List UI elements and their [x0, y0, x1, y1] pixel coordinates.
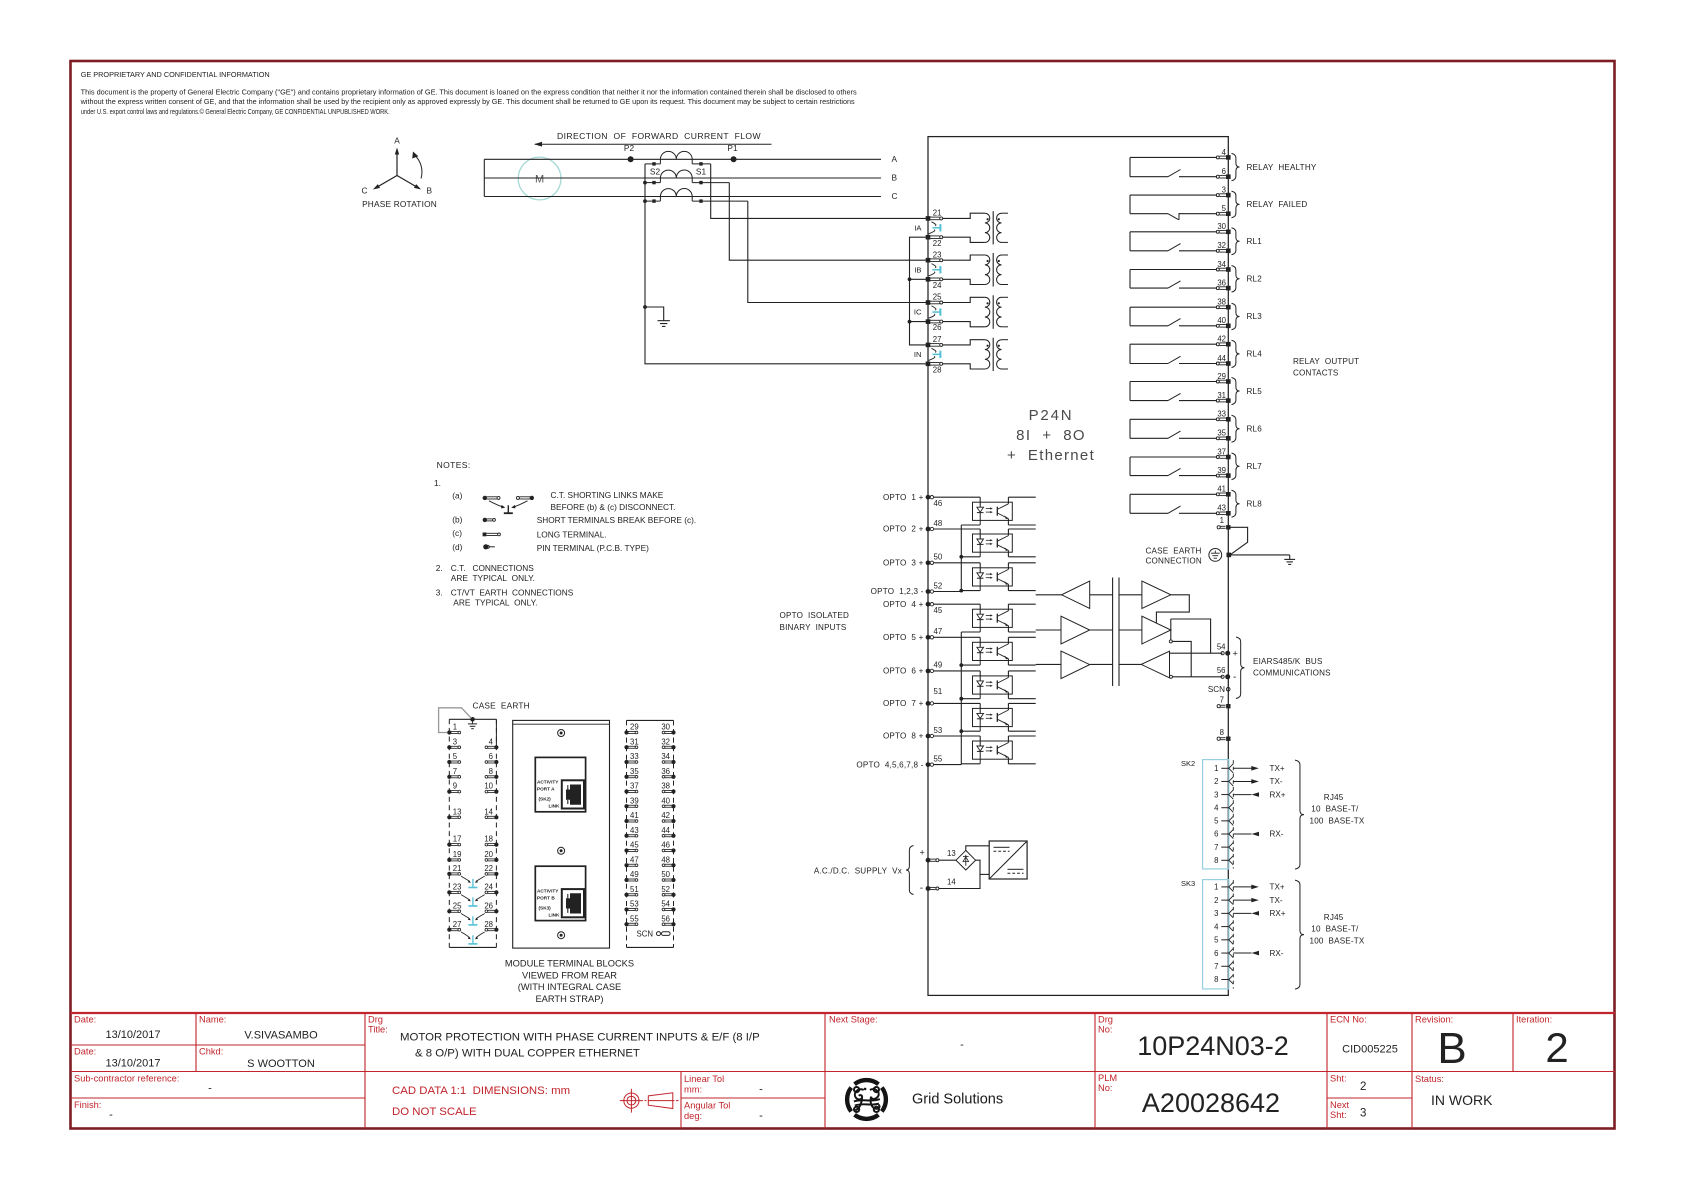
svg-text:(b): (b): [452, 515, 462, 525]
svg-text:-: -: [759, 1084, 763, 1096]
block terminal 44: [661, 826, 675, 838]
svg-text:8: 8: [489, 767, 493, 776]
svg-text:S WOOTTON: S WOOTTON: [247, 1058, 315, 1070]
rs485 driver buffer U2: [1061, 616, 1090, 644]
block terminal 30: [661, 723, 675, 735]
svg-text:5: 5: [1214, 936, 1219, 945]
svg-text:C.T. CONNECTIONS: C.T. CONNECTIONS: [451, 563, 534, 573]
svg-text:4: 4: [489, 737, 494, 746]
svg-text:20: 20: [484, 850, 493, 859]
svg-text:2: 2: [1360, 1081, 1366, 1093]
terminal SCN: [1208, 685, 1230, 694]
block terminal 47: [624, 855, 638, 867]
svg-text:LINK: LINK: [549, 912, 561, 917]
svg-text:29: 29: [1217, 372, 1226, 381]
svg-text:OPTO 2 +: OPTO 2 +: [883, 525, 924, 534]
block terminal 49: [624, 870, 638, 882]
svg-text:A: A: [892, 154, 898, 164]
svg-text:Drg: Drg: [1098, 1015, 1113, 1025]
svg-text:10: 10: [484, 782, 493, 791]
svg-text:13/10/2017: 13/10/2017: [105, 1029, 160, 1041]
optocoupler OPTO 8: [934, 736, 1036, 764]
svg-text:without the express written co: without the express written consent of G…: [80, 97, 855, 106]
opto terminal 47 (OPTO 5 +): [883, 627, 942, 642]
svg-text:RL8: RL8: [1247, 500, 1263, 509]
block terminal 55: [624, 914, 639, 926]
rs485 driver buffer U3: [1061, 651, 1090, 679]
svg-text:28: 28: [484, 920, 493, 929]
panel screw 1: [558, 730, 565, 737]
svg-text:-: -: [1233, 672, 1236, 683]
projection symbol: [620, 1089, 679, 1113]
svg-text:OPTO 7 +: OPTO 7 +: [883, 699, 924, 708]
svg-text:This document is the property: This document is the property of General…: [81, 88, 857, 97]
svg-text:OPTO 4 +: OPTO 4 +: [883, 600, 924, 609]
svg-text:(SK3): (SK3): [539, 905, 552, 910]
svg-text:40: 40: [661, 796, 670, 805]
svg-text:38: 38: [661, 782, 670, 791]
svg-text:30: 30: [1217, 222, 1226, 231]
title block values: [105, 1024, 1568, 1122]
svg-text:RJ45: RJ45: [1324, 793, 1344, 802]
svg-text:53: 53: [630, 900, 639, 909]
svg-text:PHASE ROTATION: PHASE ROTATION: [362, 199, 437, 209]
svg-text:GE PROPRIETARY AND CONFIDENTIA: GE PROPRIETARY AND CONFIDENTIAL INFORMAT…: [81, 70, 270, 79]
block terminal 4: [485, 737, 498, 749]
svg-text:8: 8: [1214, 856, 1218, 865]
svg-text:33: 33: [1217, 410, 1226, 419]
wire terminal 13 to bridge: [939, 859, 956, 861]
integral case earth strap: [439, 708, 472, 733]
svg-text:CT/VT EARTH CONNECTIONS: CT/VT EARTH CONNECTIONS: [451, 587, 574, 597]
svg-text:3: 3: [453, 737, 457, 746]
block terminal 45: [624, 841, 639, 853]
block terminal 40: [661, 796, 675, 808]
block terminal 18: [484, 835, 498, 847]
svg-text:Next: Next: [1330, 1100, 1350, 1110]
svg-text:CID005225: CID005225: [1342, 1044, 1398, 1056]
svg-text:Date:: Date:: [74, 1015, 96, 1025]
svg-text:RX+: RX+: [1270, 909, 1286, 918]
svg-text:A20028642: A20028642: [1142, 1088, 1280, 1118]
svg-text:40: 40: [1217, 316, 1226, 325]
node P2: [624, 143, 635, 162]
svg-text:OPTO 1 +: OPTO 1 +: [883, 493, 924, 502]
block terminal 28: [484, 920, 498, 932]
block terminal 54: [661, 900, 675, 912]
svg-text:No:: No:: [1098, 1025, 1112, 1035]
svg-text:TX+: TX+: [1270, 883, 1285, 892]
module face panel: [513, 720, 610, 948]
title block grid: [71, 1013, 1616, 1129]
block terminal 29: [624, 723, 638, 735]
svg-text:B: B: [427, 186, 433, 196]
relay contact RELAY FAILED terminals 3/5: [1130, 186, 1307, 220]
svg-text:ECN No:: ECN No:: [1330, 1015, 1367, 1025]
svg-text:+ Ethernet: + Ethernet: [1007, 447, 1095, 464]
svg-text:RL7: RL7: [1247, 462, 1263, 471]
svg-text:Sht:: Sht:: [1330, 1074, 1347, 1084]
system earth: [645, 307, 670, 326]
svg-text:deg:: deg:: [684, 1111, 702, 1121]
phase bus C: [484, 191, 897, 201]
svg-text:47: 47: [630, 855, 639, 864]
svg-text:38: 38: [1217, 298, 1226, 307]
svg-text:52: 52: [661, 885, 670, 894]
CT shorting link 1 in block: [461, 876, 485, 887]
wire CT C secondary to terminal 25: [748, 201, 928, 302]
svg-text:RL3: RL3: [1247, 312, 1263, 321]
svg-text:13: 13: [947, 849, 956, 858]
svg-text:RELAY HEALTHY: RELAY HEALTHY: [1247, 163, 1317, 172]
svg-text:42: 42: [1217, 335, 1226, 344]
rs485 buffer stubs: [1036, 595, 1062, 665]
svg-text:VIEWED FROM REAR: VIEWED FROM REAR: [522, 970, 617, 980]
optocoupler OPTO 2: [934, 529, 1036, 557]
svg-text:OPTO ISOLATED: OPTO ISOLATED: [780, 611, 850, 620]
svg-text:27: 27: [453, 920, 462, 929]
svg-text:21: 21: [933, 209, 942, 218]
block terminal 33: [624, 752, 638, 764]
ethernet port SK3: [1181, 879, 1365, 989]
svg-text:100 BASE-TX: 100 BASE-TX: [1310, 817, 1365, 826]
svg-text:2: 2: [1214, 777, 1218, 786]
svg-text:No:: No:: [1098, 1083, 1112, 1093]
svg-text:2.: 2.: [436, 563, 443, 573]
svg-text:RL2: RL2: [1247, 275, 1263, 284]
CT primary phase C: [645, 189, 748, 203]
relay contact RL6 terminals 33/35: [1130, 410, 1262, 443]
svg-text:RELAY OUTPUT: RELAY OUTPUT: [1293, 357, 1359, 366]
svg-text:43: 43: [1217, 504, 1226, 513]
svg-text:Chkd:: Chkd:: [199, 1047, 223, 1057]
note 3: [436, 587, 574, 607]
svg-text:49: 49: [630, 870, 639, 879]
svg-text:100 BASE-TX: 100 BASE-TX: [1310, 937, 1365, 946]
svg-text:TX-: TX-: [1270, 896, 1283, 905]
svg-text:10 BASE-T/: 10 BASE-T/: [1311, 805, 1359, 814]
block terminal 10: [484, 782, 498, 794]
svg-text:(SK2): (SK2): [539, 797, 552, 802]
svg-text:45: 45: [934, 606, 943, 615]
svg-text:P2: P2: [624, 143, 635, 153]
svg-text:Status:: Status:: [1415, 1074, 1444, 1084]
svg-text:IA: IA: [914, 223, 922, 232]
svg-text:36: 36: [661, 767, 670, 776]
svg-text:55: 55: [934, 754, 943, 763]
svg-text:DIRECTION OF FORWARD CURREN: DIRECTION OF FORWARD CURRENT FLOW: [557, 131, 761, 141]
svg-text:25: 25: [453, 901, 462, 910]
block terminal 6: [485, 752, 498, 764]
block terminal 14: [484, 807, 498, 819]
rs485 buffer U5: [1142, 616, 1171, 644]
svg-text:6: 6: [1214, 830, 1218, 839]
block terminal 31: [624, 737, 638, 749]
panel screw 2: [558, 847, 565, 854]
svg-text:6: 6: [489, 752, 493, 761]
block terminal 41: [624, 811, 638, 823]
block terminal 52: [661, 885, 675, 897]
opto terminal 53 (OPTO 8 +): [883, 726, 942, 741]
svg-text:53: 53: [934, 726, 943, 735]
case earth wire and earth symbol: [1231, 555, 1295, 565]
svg-text:19: 19: [453, 850, 462, 859]
bridge rectifier: [956, 850, 976, 870]
svg-text:34: 34: [1217, 260, 1226, 269]
svg-text:PIN TERMINAL (P.C.B. TYPE): PIN TERMINAL (P.C.B. TYPE): [537, 543, 649, 553]
svg-text:mm:: mm:: [684, 1085, 702, 1095]
terminal 7: [1217, 696, 1230, 709]
svg-text:TX-: TX-: [1270, 777, 1283, 786]
svg-text:BEFORE (b) & (c) DISCONNECT.: BEFORE (b) & (c) DISCONNECT.: [551, 502, 676, 512]
svg-text:8: 8: [1220, 728, 1224, 737]
node P1: [727, 143, 738, 162]
svg-text:54: 54: [661, 900, 670, 909]
CT primary phase B: [645, 170, 729, 184]
svg-text:-: -: [960, 1039, 964, 1051]
block terminal 23: [447, 883, 461, 895]
svg-text:COMMUNICATIONS: COMMUNICATIONS: [1253, 669, 1331, 678]
svg-text:ACTIVITY: ACTIVITY: [537, 888, 559, 893]
left terminal block outline: [449, 719, 496, 947]
svg-text:Name:: Name:: [199, 1015, 226, 1025]
block terminal 50: [661, 870, 675, 882]
svg-text:29: 29: [630, 723, 639, 732]
block terminal 42: [661, 811, 675, 823]
svg-text:50: 50: [934, 553, 943, 562]
svg-text:4: 4: [1222, 148, 1227, 157]
SCN connector on block: [637, 930, 671, 939]
svg-text:22: 22: [933, 239, 942, 248]
svg-text:A: A: [394, 136, 400, 146]
terminal 56: [1170, 666, 1237, 683]
svg-text:OPTO 3 +: OPTO 3 +: [883, 559, 924, 568]
svg-text:ARE TYPICAL ONLY.: ARE TYPICAL ONLY.: [453, 597, 537, 607]
device label P24N 8I + 8O + Ethernet: [1007, 407, 1095, 464]
svg-text:C.T. SHORTING LINKS MAKE: C.T. SHORTING LINKS MAKE: [551, 490, 664, 500]
svg-text:OPTO 8 +: OPTO 8 +: [883, 732, 924, 741]
case earth connection: [1146, 527, 1248, 565]
svg-text:S2: S2: [650, 167, 661, 177]
svg-text:IN: IN: [914, 350, 922, 359]
wire U4 output: [1156, 595, 1189, 624]
ethernet jack PORT B (SK3): [535, 866, 585, 920]
svg-text:26: 26: [933, 323, 942, 332]
relay output contacts label: [1293, 357, 1359, 378]
svg-text:3: 3: [1222, 186, 1226, 195]
svg-text:(d): (d): [452, 542, 462, 552]
svg-text:1.: 1.: [434, 478, 441, 488]
svg-text:IB: IB: [914, 265, 921, 274]
relay contact RL5 terminals 29/31: [1130, 372, 1262, 405]
svg-text:SCN: SCN: [1208, 685, 1225, 694]
svg-text:56: 56: [661, 914, 670, 923]
wire CT B secondary to terminal 23: [729, 183, 928, 261]
opto terminal 51 (OPTO 7 +): [883, 687, 942, 708]
svg-text:32: 32: [661, 737, 670, 746]
svg-text:B: B: [892, 173, 898, 183]
svg-text:V.SIVASAMBO: V.SIVASAMBO: [244, 1030, 318, 1042]
svg-text:P24N: P24N: [1029, 407, 1074, 424]
svg-text:43: 43: [630, 826, 639, 835]
block terminal 34: [661, 752, 675, 764]
note 1d: [452, 542, 649, 553]
terminal 8: [1217, 728, 1230, 741]
svg-text:35: 35: [630, 767, 639, 776]
svg-text:7: 7: [453, 767, 457, 776]
rs485 receiver buffer U1: [1062, 581, 1090, 609]
svg-text:MOTOR PROTECTION WITH PHASE CU: MOTOR PROTECTION WITH PHASE CURRENT INPU…: [400, 1032, 760, 1044]
svg-text:EARTH STRAP): EARTH STRAP): [535, 994, 603, 1004]
optocoupler OPTO 7: [934, 703, 1036, 731]
svg-text:55: 55: [630, 914, 639, 923]
svg-text:51: 51: [934, 687, 943, 696]
block terminal 36: [661, 767, 675, 779]
CT shorting link 4 in block: [461, 932, 485, 944]
rs485 bus label: [1236, 637, 1331, 699]
svg-text:14: 14: [947, 877, 956, 886]
svg-text:4: 4: [1214, 803, 1219, 812]
cad data note: [392, 1085, 570, 1118]
svg-text:1: 1: [1220, 516, 1224, 525]
block terminal 17: [447, 835, 461, 847]
opto terminal 46 (OPTO 1 +): [883, 493, 942, 508]
block terminal 26: [484, 901, 498, 913]
ethernet jack PORT A (SK2): [535, 757, 585, 811]
svg-text:7: 7: [1214, 843, 1218, 852]
phase rotation symbol: [362, 136, 437, 210]
svg-text:22: 22: [484, 864, 493, 873]
block terminal 20: [484, 850, 498, 862]
svg-text:50: 50: [661, 870, 670, 879]
svg-text:Sub-contractor reference:: Sub-contractor reference:: [74, 1074, 179, 1084]
svg-text:RL4: RL4: [1247, 350, 1263, 359]
svg-text:37: 37: [1217, 447, 1226, 456]
svg-text:OPTO 4,5,6,7,8 -: OPTO 4,5,6,7,8 -: [856, 760, 923, 769]
CT input IA terminals 21/22: [914, 209, 1008, 248]
rs485 row link wires: [1090, 595, 1142, 665]
CT primary phase A: [645, 151, 711, 176]
optocoupler OPTO 6: [934, 671, 1036, 699]
svg-text:SCN: SCN: [637, 930, 653, 939]
svg-text:Title:: Title:: [368, 1025, 388, 1035]
wire U5 output to terminal 54: [1169, 619, 1210, 653]
svg-text:-: -: [109, 1109, 113, 1121]
svg-text:A.C./D.C. SUPPLY Vx: A.C./D.C. SUPPLY Vx: [814, 866, 902, 875]
svg-text:28: 28: [933, 365, 942, 374]
svg-text:14: 14: [484, 807, 493, 816]
CT star point bus and wire to terminal 28: [643, 164, 928, 364]
block terminal 56: [661, 914, 675, 926]
left block case earth point: [468, 717, 477, 729]
opto terminal 55 (OPTO 4,5,6,7,8 -): [856, 754, 942, 769]
svg-text:54: 54: [1217, 643, 1226, 652]
svg-text:Sht:: Sht:: [1330, 1110, 1347, 1120]
svg-text:TX+: TX+: [1270, 764, 1285, 773]
svg-text:8I + 8O: 8I + 8O: [1016, 427, 1086, 444]
rs485 isolation barrier: [1113, 578, 1119, 687]
left block top right edge tie: [495, 719, 497, 747]
relay contact RELAY HEALTHY terminals 4/6: [1130, 148, 1317, 181]
svg-text:7: 7: [1220, 696, 1224, 705]
svg-text:OPTO 6 +: OPTO 6 +: [883, 667, 924, 676]
svg-text:35: 35: [1217, 429, 1226, 438]
svg-text:39: 39: [630, 796, 639, 805]
svg-text:RL5: RL5: [1247, 387, 1263, 396]
svg-text:52: 52: [934, 581, 943, 590]
svg-text:41: 41: [1217, 485, 1226, 494]
svg-text:10P24N03-2: 10P24N03-2: [1137, 1031, 1289, 1061]
relay contact RL4 terminals 42/44: [1130, 335, 1262, 368]
svg-text:27: 27: [933, 335, 942, 344]
svg-text:RX-: RX-: [1270, 949, 1284, 958]
block terminal 51: [624, 885, 638, 897]
relay contact RL2 terminals 34/36: [1130, 260, 1262, 292]
opto isolated binary inputs label: [780, 611, 850, 632]
block terminal 9: [447, 782, 460, 794]
svg-text:44: 44: [1217, 354, 1226, 363]
svg-text:IN WORK: IN WORK: [1431, 1092, 1493, 1108]
wire bridge to psu top: [966, 846, 989, 851]
right terminal block outline: [627, 720, 674, 947]
svg-text:18: 18: [484, 835, 493, 844]
block terminal 35: [624, 767, 639, 779]
svg-text:RELAY FAILED: RELAY FAILED: [1247, 200, 1308, 209]
svg-text:RL6: RL6: [1247, 425, 1263, 434]
svg-text:CONTACTS: CONTACTS: [1293, 369, 1339, 378]
relay contact RL3 terminals 38/40: [1130, 298, 1262, 330]
block terminal 8: [485, 767, 498, 779]
svg-text:8: 8: [1214, 975, 1218, 984]
CT return jumper 22-24-26-27: [908, 237, 928, 345]
optocoupler OPTO 5: [934, 637, 1036, 665]
block terminal 22: [484, 864, 498, 876]
CT input IN terminals 27/28: [914, 335, 1008, 374]
svg-text:OPTO 5 +: OPTO 5 +: [883, 633, 924, 642]
svg-text:21: 21: [453, 864, 462, 873]
relay contact RL8 terminals 41/43: [1130, 485, 1262, 518]
svg-text:LINK: LINK: [549, 804, 561, 809]
motor M: [518, 157, 561, 200]
svg-text:37: 37: [630, 782, 639, 791]
CT shorting link 3 in block: [461, 914, 485, 925]
note 2: [436, 563, 535, 583]
svg-text:26: 26: [484, 901, 493, 910]
svg-text:24: 24: [484, 883, 493, 892]
svg-text:Linear Tol: Linear Tol: [684, 1074, 724, 1084]
block terminal 19: [447, 850, 461, 862]
ac/dc supply label: [814, 846, 925, 895]
svg-text:RJ45: RJ45: [1324, 913, 1344, 922]
svg-text:49: 49: [934, 661, 943, 670]
CT input IC terminals 25/26: [914, 293, 1008, 333]
relay contact RL7 terminals 37/39: [1130, 447, 1262, 479]
svg-text:CASE EARTH: CASE EARTH: [1146, 546, 1202, 555]
relay case P24N outline: [928, 137, 1228, 996]
svg-text:PLM: PLM: [1098, 1073, 1117, 1083]
svg-text:3: 3: [1214, 909, 1218, 918]
svg-text:C: C: [362, 186, 368, 196]
svg-text:PORT B: PORT B: [537, 895, 555, 900]
rs485 buffer U4: [1142, 581, 1171, 609]
svg-text:4: 4: [1214, 922, 1219, 931]
svg-text:& 8 O/P) WITH DUAL COPPER ETHE: & 8 O/P) WITH DUAL COPPER ETHERNET: [415, 1048, 640, 1060]
svg-text:39: 39: [1217, 466, 1226, 475]
svg-text:RX+: RX+: [1270, 790, 1286, 799]
block terminal 43: [624, 826, 638, 838]
terminal 13: [926, 849, 956, 863]
svg-text:13: 13: [453, 807, 462, 816]
